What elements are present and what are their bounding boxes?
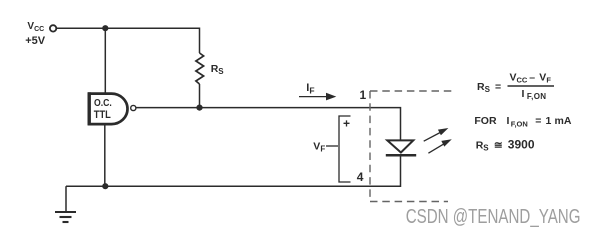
svg-text:O.C.: O.C. xyxy=(94,98,112,109)
wire gate output to LED anode (net IF) xyxy=(136,108,401,140)
junction dot C (gate ground to rail) xyxy=(102,183,108,189)
svg-text:CSDN @TENAND_YANG: CSDN @TENAND_YANG xyxy=(406,205,581,228)
svg-text:+: + xyxy=(343,117,350,131)
wire resistor bottom to output net xyxy=(199,84,201,108)
wire top rail VCC to resistor xyxy=(57,28,200,53)
gate U1 output bubble xyxy=(131,105,136,110)
junction dot B (resistor to output net) xyxy=(196,105,202,111)
equation 1: RS = (VCC - VF)/IF,ON xyxy=(477,72,554,102)
svg-text:RS≅3900: RS≅3900 xyxy=(476,137,535,152)
svg-text:4: 4 xyxy=(357,170,364,184)
gate U1 O.C. TTL body xyxy=(89,94,127,125)
wire LED cathode to ground rail xyxy=(66,155,401,186)
wire VCC junction down to gate top xyxy=(104,28,106,93)
wire rail down to ground symbol xyxy=(65,186,67,211)
resistor RS zigzag xyxy=(196,53,204,84)
svg-text:TTL: TTL xyxy=(94,109,111,121)
svg-text:IF: IF xyxy=(306,82,314,96)
ground xyxy=(55,212,76,222)
VF measurement bracket xyxy=(326,116,351,182)
optocoupler package dashed outline xyxy=(370,91,454,202)
svg-text:VCC–VF: VCC–VF xyxy=(510,72,552,85)
gate U1 left edge heavy bar xyxy=(87,92,90,125)
svg-text:IF,ON: IF,ON xyxy=(522,88,547,101)
node VCC terminal xyxy=(50,25,56,31)
arrow IF current direction xyxy=(299,93,336,101)
junction dot A (VCC rail to gate supply) xyxy=(102,25,108,31)
svg-text:VF: VF xyxy=(313,141,325,154)
svg-text:FORIF,ON=1mA: FORIF,ON=1mA xyxy=(474,115,571,128)
svg-text:RS: RS xyxy=(211,63,225,76)
LED light emission arrows xyxy=(424,128,452,153)
svg-text:+5V: +5V xyxy=(25,35,46,47)
LED D1 xyxy=(386,140,416,155)
wire gate bottom to ground rail xyxy=(104,125,106,186)
svg-text:RS=: RS= xyxy=(477,81,501,94)
svg-text:1: 1 xyxy=(360,88,367,102)
svg-text:VCC: VCC xyxy=(27,21,44,33)
